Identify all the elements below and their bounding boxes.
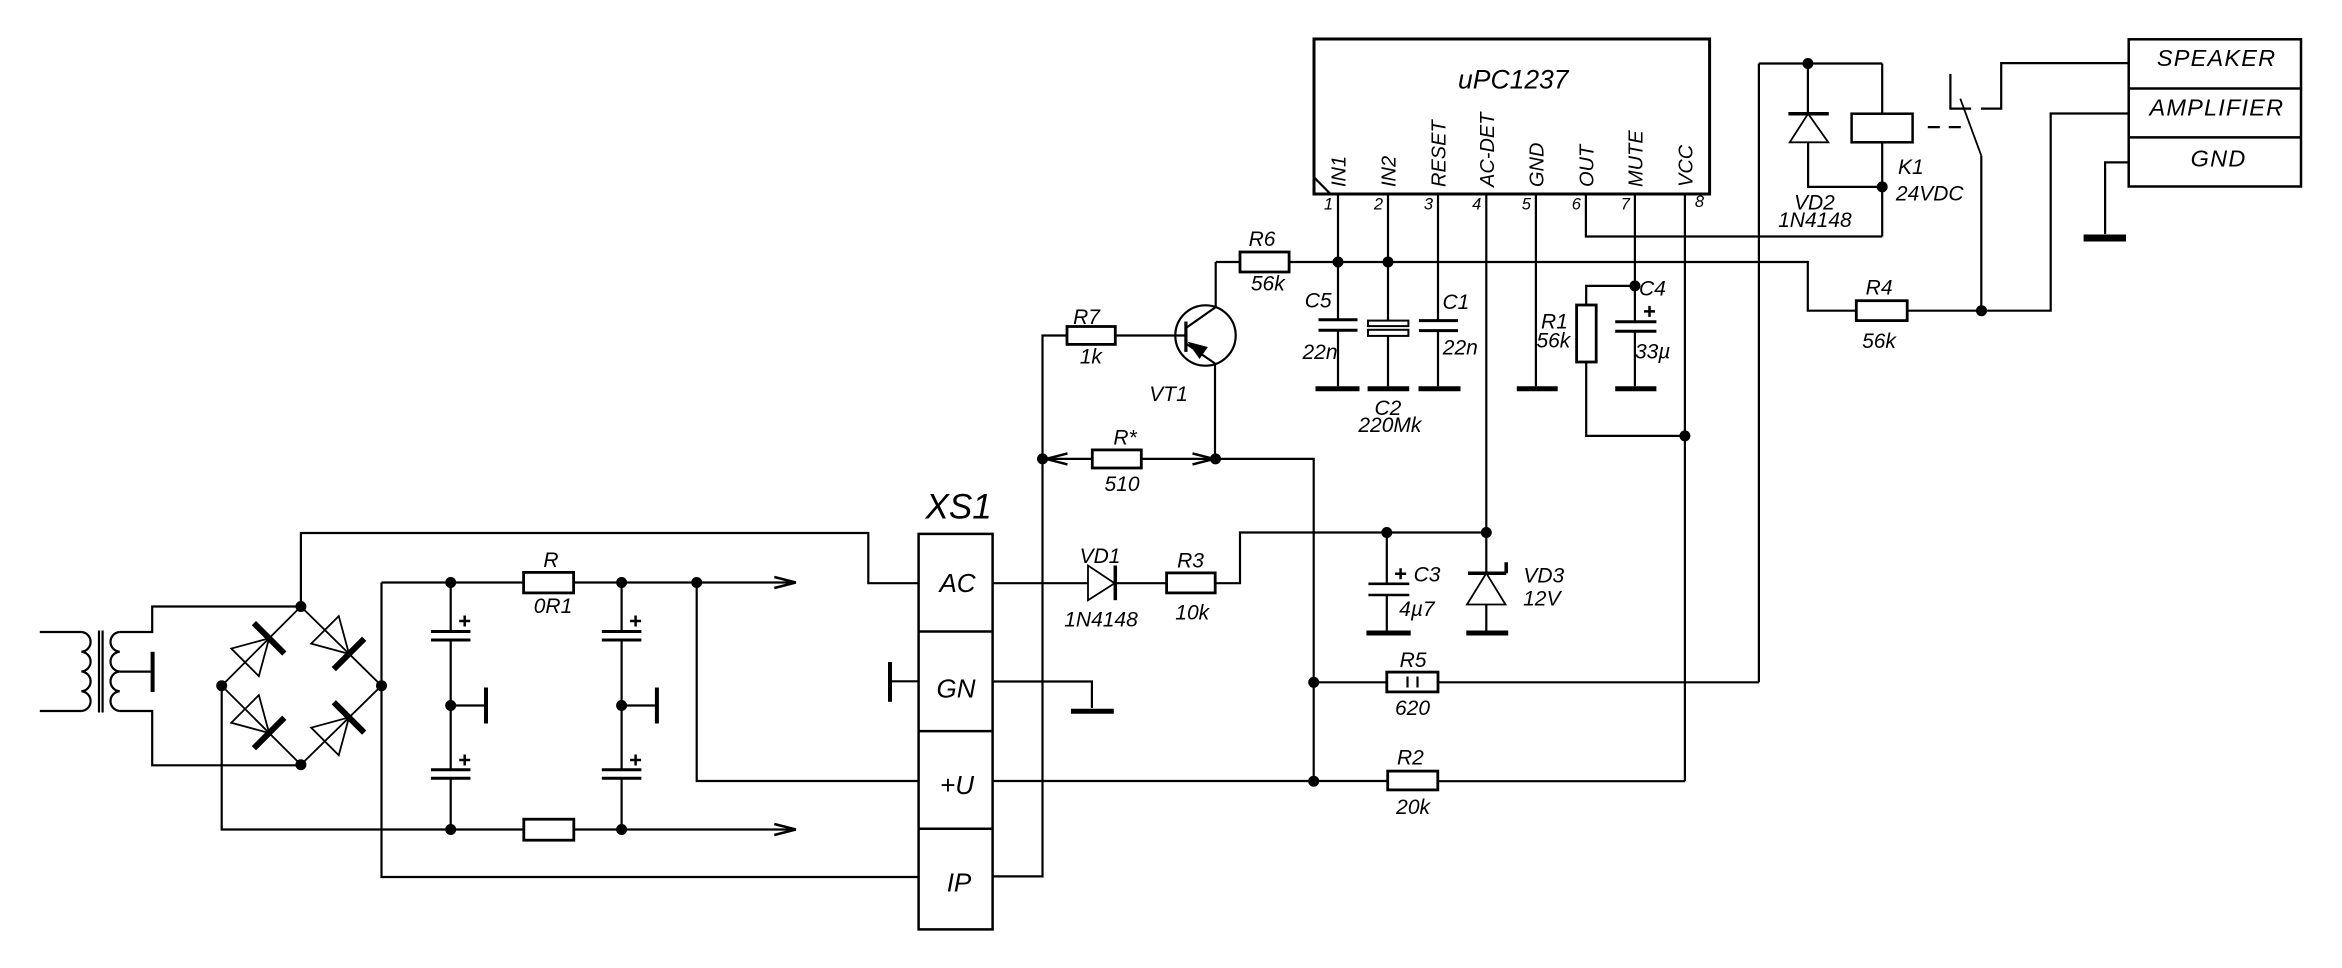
wire VT1 emitter down [1214,364,1216,459]
wire collector to R6 [1216,261,1240,263]
node VD2 top [1802,58,1813,69]
wire relay top rail [1759,62,1882,64]
wire R* left [1043,458,1093,460]
bridge diode D3 (left to bottom) [231,695,284,748]
wire emitter junction to +U vertical [1216,459,1314,781]
transformer T primary winding [81,632,90,711]
filter capacitor column C-B top cap [602,583,642,706]
node rail cap2 top [616,577,627,588]
svg-text:VT1: VT1 [1149,383,1188,406]
bridge diode D2 (top to right) [311,616,364,669]
resistor R7 body [1067,327,1115,345]
svg-text:R6: R6 [1249,228,1276,251]
svg-text:GND: GND [1526,143,1548,187]
mechanical link dashed [1928,126,1965,128]
node MUTE / R1 top [1629,280,1640,291]
svg-text:22n: 22n [1442,337,1478,360]
svg-text:VD1: VD1 [1080,545,1121,568]
svg-text:OUT: OUT [1576,143,1598,187]
wire +U branch down to XS1 +U [697,583,919,782]
svg-text:R7: R7 [1073,306,1101,329]
ground (C1) [1419,386,1461,391]
wire pin7 MUTE down [1634,194,1636,386]
svg-text:10k: 10k [1175,601,1210,624]
IC U1 uPC1237 box [1314,39,1710,194]
ground (C4) [1615,386,1656,391]
wire IN rail R6 to R4 bend [1289,262,1856,311]
svg-text:R3: R3 [1177,550,1204,573]
svg-text:C4: C4 [1639,278,1666,301]
transformer T core [99,631,103,713]
svg-text:AC: AC [937,568,975,598]
svg-text:RESET: RESET [1429,119,1451,187]
node bridge bottom [295,759,306,770]
capacitor C2 [1368,321,1408,387]
wire bridge right corner down to XS1 IP [382,686,919,877]
node R4 / switch [1976,305,1987,316]
wire pin8 VCC down to R2 [1684,194,1686,781]
resistor (unlabeled, minus rail) body [524,819,574,840]
ground (pin5) [1517,386,1558,391]
svg-text:R2: R2 [1397,747,1424,770]
svg-text:K1: K1 [1898,156,1924,179]
switch blade [1960,99,1981,156]
svg-text:C1: C1 [1442,291,1469,314]
svg-text:uPC1237: uPC1237 [1458,65,1570,95]
wire secondary bottom to bridge AC bottom [120,711,301,765]
arrow +rail [774,577,796,588]
node VD3 top [1481,527,1492,538]
arrow minus rail [774,824,796,835]
wire long vertical rail-R5 [1758,64,1760,683]
svg-text:20k: 20k [1395,796,1431,819]
svg-text:R4: R4 [1866,276,1893,299]
svg-text:IN2: IN2 [1379,156,1401,187]
wire pin4 AC-DET down [1485,194,1487,533]
GN left chassis stub [890,662,919,702]
capacitor C5 [1319,320,1358,387]
ground (C5) [1316,386,1360,391]
wire pin2 to C2 [1387,194,1389,321]
svg-text:4: 4 [1472,196,1481,214]
wire +rail left of R [382,581,524,583]
wire bridge top to XS1 AC [301,533,919,607]
node C3 top [1381,527,1392,538]
node column C-B midpoint [616,700,627,711]
ground (VD3) [1466,631,1508,636]
filter capacitor column C-A top cap [431,583,471,706]
svg-text:C5: C5 [1305,289,1332,312]
node bridge left [216,680,227,691]
switch fixed contact hook [1950,74,1971,109]
svg-text:+U: +U [940,770,974,800]
arrow R* left [1046,453,1068,464]
transformer T secondary winding [111,632,120,711]
svg-text:56k: 56k [1536,330,1571,353]
svg-text:SPEAKER: SPEAKER [2157,45,2276,71]
wire pin3 to C1 [1437,194,1439,321]
connector XS1 box [919,534,993,930]
svg-text:R5: R5 [1400,649,1427,672]
svg-text:R: R [543,549,558,572]
svg-text:33µ: 33µ [1635,341,1670,364]
node rail pin2 [1383,257,1394,268]
wire switch to R4 node [1980,156,1982,311]
transformer T primary bottom lead [40,710,82,712]
wire R1 top jog [1586,286,1635,305]
terminal box SPEAKER/AMPLIFIER/GND [2129,39,2301,186]
wire R1 bottom to VCC [1586,362,1685,436]
svg-text:IN1: IN1 [1329,156,1351,187]
capacitor C3 [1368,533,1409,632]
wire XS1 IP up to R7 [993,336,1067,877]
wire GN right to ground [993,682,1092,709]
wire R2 right to VCC vertical [1438,780,1685,782]
secondary center tap lead [120,670,151,672]
node minus rail cap2 [616,824,627,835]
node R* left [1037,453,1048,464]
resistor R6 body [1240,252,1289,272]
ground (C2) [1368,386,1410,391]
wire VT1 collector up [1215,262,1217,307]
svg-text:VD3: VD3 [1523,565,1564,588]
svg-text:C3: C3 [1414,564,1441,587]
svg-text:3: 3 [1424,196,1434,214]
svg-text:7: 7 [1621,196,1631,214]
bridge diode D1 (left to top) [231,623,284,676]
bridge rectifier diamond [222,607,382,765]
node rail pin1 [1333,257,1344,268]
wire +rail right of R with arrow end [574,581,794,583]
svg-text:XS1: XS1 [925,487,992,526]
wire bridge right corner up to +rail [380,583,382,686]
svg-text:AC-DET: AC-DET [1477,111,1499,188]
wire secondary top to bridge AC top [120,607,301,633]
wire pin5 GND down [1535,194,1537,386]
switch right stub to SPEAKER [1981,63,2129,109]
node minus rail cap1 [445,824,456,835]
relay K1 coil [1852,64,1913,237]
column C-A midpoint terminal bar [451,688,486,724]
filter capacitor column C-B bottom cap [602,706,642,830]
diode VD1 [1088,566,1115,601]
svg-text:1k: 1k [1080,346,1104,369]
node rail cap1 top [445,577,456,588]
svg-text:24VDC: 24VDC [1895,183,1965,206]
node R* right / emitter [1210,453,1221,464]
resistor R3 body [1167,573,1216,593]
capacitor C1 [1419,321,1458,387]
wire bridge left corner down to minus rail [222,686,524,830]
svg-text:GND: GND [2191,145,2247,171]
svg-text:VCC: VCC [1675,144,1697,187]
capacitor C4 [1615,306,1656,331]
filter capacitor column C-A bottom cap [431,706,471,830]
wire R5 right to relay rail [1438,681,1759,683]
ground (GN) [1071,709,1114,714]
resistor R* body [1092,450,1141,468]
svg-text:4µ7: 4µ7 [1399,598,1436,621]
svg-text:1N4148: 1N4148 [1064,609,1138,632]
resistor R2 body [1388,771,1438,790]
svg-text:IP: IP [947,868,972,898]
svg-text:6: 6 [1572,196,1582,214]
svg-text:8: 8 [1695,193,1705,211]
wire R7 to VT1 base [1115,334,1186,336]
node R1 bottom / VCC [1679,430,1690,441]
resistor R body [524,572,574,593]
svg-text:MUTE: MUTE [1625,130,1647,187]
svg-text:1N4148: 1N4148 [1778,209,1852,232]
diode VD2 [1788,64,1882,187]
svg-text:0R1: 0R1 [534,595,573,618]
wire R4 right to AMPLIFIER [1907,114,2129,311]
svg-text:56k: 56k [1862,330,1897,353]
center tap terminal bar [151,652,155,692]
node +U / R5 [1308,677,1319,688]
wire +U row XS1 to R2 [993,780,1388,782]
wire minus rail right with arrow end [574,828,794,830]
wire pin6 OUT to relay [1586,194,1882,237]
svg-text:56k: 56k [1251,273,1286,296]
wire VD1 to R3 [1115,582,1166,584]
wire R5 left [1314,681,1387,683]
bridge diode D4 (bottom to right) [311,702,364,755]
node relay / VD2 bottom [1877,181,1888,192]
node column C-A midpoint [445,700,456,711]
svg-text:GN: GN [937,673,976,703]
ground (C3) [1366,631,1410,636]
svg-text:AMPLIFIER: AMPLIFIER [2147,94,2284,120]
transistor VT1 [1175,305,1235,365]
resistor R5 body [1387,672,1438,692]
svg-text:2: 2 [1373,196,1383,214]
transformer T primary top lead [40,631,82,633]
svg-text:12V: 12V [1523,588,1562,611]
wire R3 up to AC-DET net [1215,533,1486,584]
wire pin1 to C5 [1337,194,1339,320]
svg-text:R*: R* [1113,427,1137,450]
ground (GND box) [2084,235,2126,242]
arrow R* right [1193,453,1215,464]
wire R* right [1141,458,1215,460]
svg-text:510: 510 [1104,473,1139,496]
node bridge top [295,601,306,612]
svg-text:22n: 22n [1301,341,1337,364]
node bridge right [376,680,387,691]
column C-B midpoint terminal bar [622,688,657,724]
svg-text:620: 620 [1395,697,1430,720]
node +U / R2 [1308,776,1319,787]
svg-text:5: 5 [1522,196,1532,214]
node rail +U branch [691,577,702,588]
svg-text:1: 1 [1324,196,1333,214]
zener diode VD3 [1467,533,1506,632]
wire XS1 AC to VD1 [993,582,1088,584]
resistor R4 body [1856,301,1907,321]
wire GND row to ground [2105,162,2129,234]
resistor R1 body [1577,305,1597,362]
svg-text:220Mk: 220Mk [1357,414,1423,437]
